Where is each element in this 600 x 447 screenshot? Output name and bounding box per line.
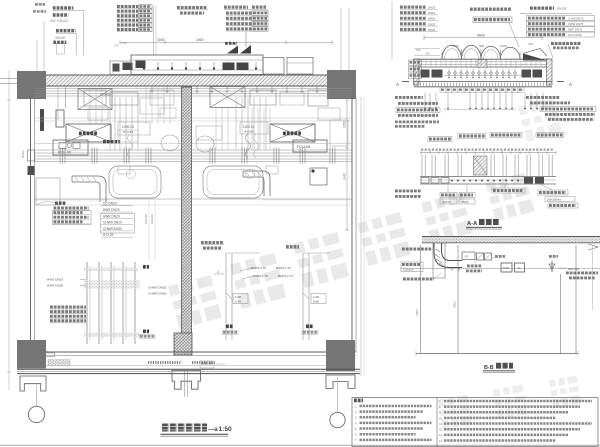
riser verticals left-mid [109, 97, 111, 150]
FCU-06 unit left [53, 140, 88, 155]
A-A end hatch strips [414, 59, 420, 85]
A-A annotation stack left [400, 6, 426, 9]
dark hatched wedges [227, 46, 238, 54]
svg-text:PVC DN50: PVC DN50 [568, 33, 582, 37]
riser elbows lower [226, 293, 232, 299]
svg-text:CHWR DN20: CHWR DN20 [103, 227, 122, 231]
svg-text:DN20: DN20 [428, 11, 436, 15]
column top-left [17, 71, 46, 99]
svg-text:7600: 7600 [415, 309, 419, 316]
check valve bold label [103, 140, 120, 143]
A-A beam band [414, 58, 552, 60]
riser label box left [118, 122, 150, 135]
A-A fitting dark boxes [421, 70, 430, 78]
svg-text:1000: 1000 [157, 38, 165, 42]
svg-text:1200.00: 1200.00 [122, 125, 134, 129]
svg-text:2: 2 [217, 270, 219, 274]
svg-text:1000: 1000 [500, 44, 507, 48]
bottom page line [0, 444, 600, 446]
silencer X-box left [66, 124, 111, 142]
svg-text:3.: 3. [355, 416, 357, 420]
FCU-06 unit right [293, 140, 327, 152]
main bottom band [17, 368, 360, 370]
mid water riser label [286, 245, 299, 248]
B-B left labels [402, 248, 431, 251]
A-A hatched box in grid [474, 156, 488, 175]
svg-text:700: 700 [425, 52, 430, 56]
upper boxes row [84, 90, 106, 106]
tiny top-left marks [35, 3, 45, 6]
room lower boundary line [35, 198, 182, 200]
A-A beam verticals [420, 59, 422, 67]
S-pipe symbols near shaft [246, 134, 251, 158]
svg-text:900x120: 900x120 [568, 267, 579, 271]
wall small marks left [40, 109, 44, 131]
light lower line [46, 365, 356, 367]
A-A pipe row [420, 176, 556, 178]
svg-text:120x150: 120x150 [403, 267, 414, 271]
fixture ellipses [161, 135, 179, 151]
plan top annotation stack 4 boxed [224, 5, 248, 8]
svg-text:2.: 2. [355, 410, 357, 414]
svg-text:A-A: A-A [467, 221, 478, 227]
B-B shaft outline box [433, 243, 445, 278]
svg-text:130: 130 [122, 41, 127, 45]
riser verticals right-mid [235, 97, 237, 150]
svg-text:HWR DN20: HWR DN20 [103, 214, 120, 218]
axis bubble right [330, 412, 345, 427]
svg-text:600x600: 600x600 [100, 93, 111, 97]
svg-text:DN20: DN20 [428, 22, 436, 26]
top wall hatched band [46, 75, 327, 86]
svg-text:CHWS DN25: CHWS DN25 [148, 286, 167, 290]
svg-text:DN20: DN20 [428, 6, 436, 10]
small boxes near left wall mid [36, 178, 60, 205]
column top-right [327, 70, 356, 99]
riser label box right [240, 122, 268, 134]
svg-text:200x100mm: 200x100mm [547, 198, 561, 202]
notes table frame [352, 398, 598, 447]
B-B horizontal duct boxes [462, 252, 475, 260]
svg-text:RCB: RCB [503, 266, 509, 270]
central shaft hatched wall [182, 87, 192, 333]
B-B top slab [422, 237, 600, 243]
svg-text:1350: 1350 [343, 121, 347, 128]
svg-text:CD DN20: CD DN20 [103, 202, 117, 206]
plan duct run above wall [131, 55, 263, 75]
B-B ceiling line [400, 268, 600, 270]
svg-text:CHWS DN20: CHWS DN20 [103, 221, 122, 225]
central shaft base [174, 333, 192, 355]
A-A lower labels row [395, 121, 439, 124]
boxed spec stack left room [55, 202, 66, 205]
svg-text:BHPS 2.75: BHPS 2.75 [251, 266, 266, 270]
bathtub duct left [109, 166, 161, 198]
svg-text:CHWR DN20: CHWR DN20 [148, 292, 167, 296]
B-B vertical lines [420, 245, 422, 354]
notes header [354, 398, 363, 402]
svg-text:1.00: 1.00 [313, 295, 319, 299]
svg-text:H+3.80: H+3.80 [244, 130, 254, 134]
elevation boxed labels [233, 294, 248, 304]
duct elbow right room [243, 171, 270, 196]
svg-text:13.: 13. [439, 433, 443, 437]
svg-text:BHPS 2.75: BHPS 2.75 [253, 274, 268, 278]
watermark [168, 275, 222, 329]
bathtub duct right [203, 166, 263, 198]
leader line top center-right [391, 2, 393, 60]
svg-text:BHPS 2.75: BHPS 2.75 [276, 266, 291, 270]
svg-text:8.: 8. [439, 405, 441, 409]
B5 bold marks lower-right [226, 324, 233, 328]
svg-text:7.: 7. [439, 399, 441, 403]
svg-text:10.: 10. [439, 416, 443, 420]
lower-right pipe risers pair2 [302, 253, 304, 340]
lower-left pipe risers [86, 262, 88, 344]
riser hatch bands [84, 268, 138, 272]
plan top dimension line [120, 42, 332, 44]
svg-text:CWW DN75: CWW DN75 [568, 22, 584, 26]
B-B mid small labels [467, 265, 482, 268]
A-A annotation stack right [530, 7, 554, 10]
hanger tick row under wall [151, 87, 153, 94]
B-B AL box [515, 263, 525, 272]
svg-text:B+500: B+500 [21, 150, 25, 158]
svg-text:HWS DN25: HWS DN25 [47, 278, 63, 282]
svg-text:DN100: DN100 [442, 200, 451, 204]
A-A bottom label boxes [440, 193, 457, 198]
upper X-box left [78, 89, 112, 110]
A-A center top labels [470, 7, 511, 10]
bottom wall speckle [48, 360, 70, 365]
svg-text:CM30: CM30 [461, 200, 469, 204]
right wall [351, 97, 353, 352]
svg-text:300x50: 300x50 [55, 36, 66, 40]
bottom wall [30, 351, 356, 353]
plan upper extra linework [89, 86, 91, 124]
A-A pipe arcs [442, 45, 462, 59]
svg-text:0.80: 0.80 [313, 300, 319, 304]
A-A mid boxed labels [428, 137, 452, 142]
box with corner dot [310, 168, 327, 185]
axis line left [35, 385, 37, 406]
svg-text:5.: 5. [355, 427, 357, 431]
5B bold marks [143, 265, 149, 269]
svg-text:1.: 1. [355, 404, 357, 408]
svg-text:1:50: 1:50 [219, 426, 233, 433]
svg-text:DN20: DN20 [428, 28, 436, 32]
svg-text:C-HIS DN72: C-HIS DN72 [568, 17, 584, 21]
svg-text:120x60: 120x60 [144, 214, 148, 224]
A-A vertical pipe grid [421, 155, 423, 177]
A-A top dimension [424, 37, 542, 39]
A-A right label cluster [526, 96, 560, 99]
plan top annotation stack 3 [177, 6, 207, 9]
plan mid extra fittings [127, 170, 136, 179]
svg-text:HWR DN20: HWR DN20 [47, 284, 63, 288]
wall lines to left edge [0, 78, 17, 80]
leader verticals above wall right [340, 8, 342, 70]
A-A pitch dimension row [420, 152, 556, 154]
B-B right valve symbol [551, 261, 553, 272]
svg-text:1.00: 1.00 [235, 295, 241, 299]
svg-text:BHPS 2.75: BHPS 2.75 [278, 274, 293, 278]
A-A dark hatched wedge [523, 54, 547, 61]
svg-text:7.: 7. [355, 438, 357, 442]
B-B RCU box [501, 263, 512, 272]
svg-text:3600: 3600 [453, 301, 457, 308]
duct elbow left room [72, 176, 106, 202]
svg-text:1200.00: 1200.00 [243, 125, 255, 129]
column bottom-right [326, 340, 355, 371]
plan top annotation stack 2 boxed [117, 5, 138, 8]
svg-text:700: 700 [528, 42, 533, 46]
svg-text:RWT DN75: RWT DN75 [568, 28, 583, 32]
shaft base tick bands [148, 361, 181, 364]
left wall [30, 99, 32, 352]
A-A floor band [414, 81, 552, 83]
A-A boxed number row [440, 87, 446, 92]
footing bottom-left [20, 376, 46, 391]
plan top annotation stack 1 [53, 6, 74, 9]
footing bottom-right [326, 375, 355, 389]
A-A drop pipes [424, 93, 426, 109]
svg-text:5600: 5600 [477, 34, 485, 38]
lower-right pipe risers pair1 [225, 253, 227, 340]
svg-text:DN20: DN20 [428, 17, 436, 21]
svg-text:B-B: B-B [484, 365, 494, 371]
upper X-box right [210, 87, 245, 108]
plan title [162, 424, 207, 432]
svg-text:FCU-06: FCU-06 [297, 145, 310, 149]
svg-text:6.: 6. [355, 433, 357, 437]
svg-text:H+2.25: H+2.25 [103, 233, 114, 237]
axis line right [337, 377, 339, 412]
svg-text:14.: 14. [439, 439, 443, 443]
svg-text:11.: 11. [439, 422, 443, 426]
A-A left label cluster [395, 96, 423, 99]
svg-text:841 100x20: 841 100x20 [50, 19, 67, 23]
leader lines above wall left [36, 40, 38, 71]
svg-text:129x60: 129x60 [150, 214, 154, 224]
svg-text:12.: 12. [439, 428, 443, 432]
svg-text:0.80: 0.80 [235, 300, 241, 304]
svg-text:AL: AL [518, 266, 522, 270]
left margin extension line [8, 70, 10, 390]
label stack 4rows lower-left [50, 306, 86, 309]
svg-text:170: 170 [114, 44, 119, 48]
damper dark marks left [123, 63, 133, 71]
pipe bundle row across plan [35, 149, 353, 151]
silencer X-box right [270, 124, 315, 142]
svg-text:DN102: DN102 [557, 7, 567, 11]
label stack lower colour2 [201, 241, 223, 244]
damper dark marks right [223, 63, 235, 71]
boxes right of duct run [263, 58, 284, 75]
right dim chain of plan [346, 100, 348, 230]
svg-text:1440: 1440 [343, 173, 347, 180]
svg-text:VD: VD [465, 255, 469, 259]
svg-text:1000: 1000 [196, 38, 204, 42]
svg-text:HWS DN25: HWS DN25 [103, 208, 120, 212]
central shaft footing [172, 370, 201, 389]
B-B elbow duct [434, 243, 462, 268]
A-A valve dots row [448, 72, 451, 75]
svg-text:4.: 4. [355, 421, 357, 425]
ceiling lines [35, 88, 353, 90]
B-B bottom line [416, 353, 578, 355]
column bottom-left [17, 340, 46, 369]
svg-text:9.: 9. [439, 411, 441, 415]
svg-text:—a: —a [208, 426, 218, 433]
axis bubble left [28, 406, 44, 422]
A-A left boxed cells [409, 60, 422, 65]
svg-text:300: 300 [479, 44, 484, 48]
